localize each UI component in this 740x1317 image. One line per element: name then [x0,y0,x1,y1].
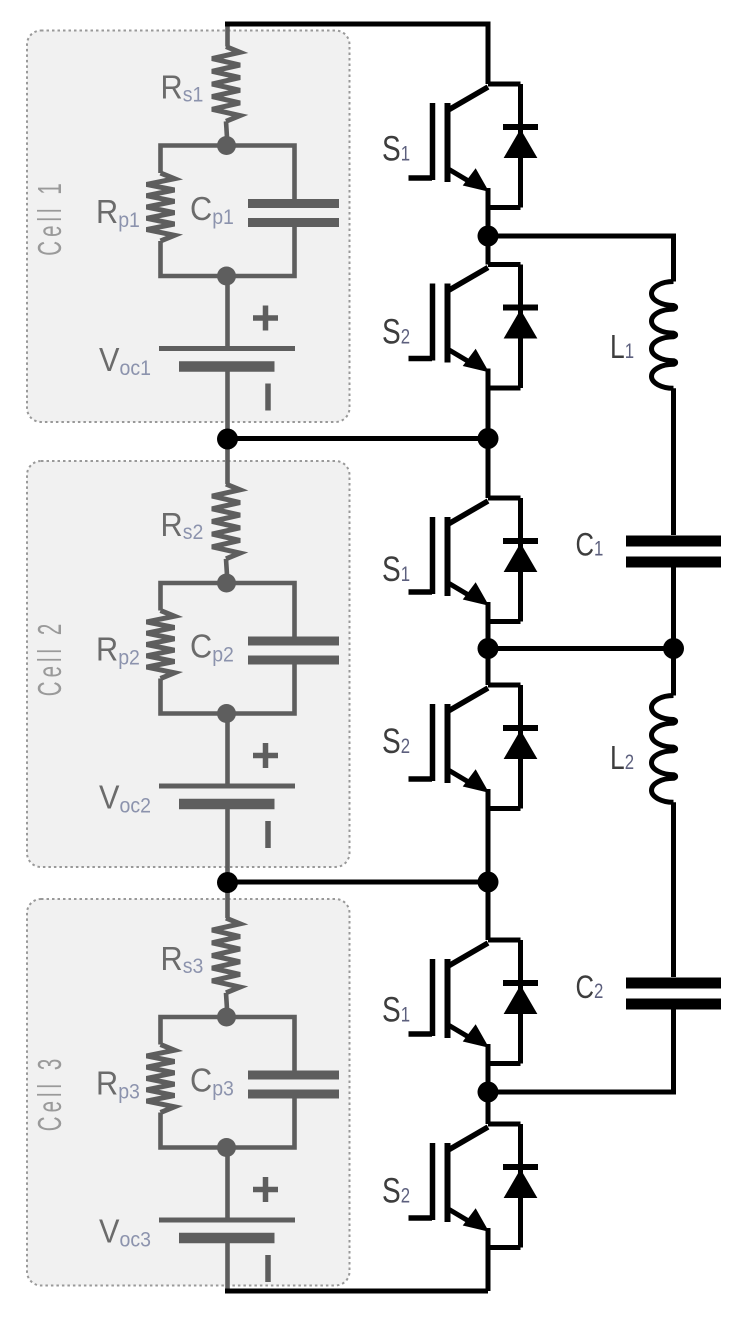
gate bar [430,103,436,180]
node: Rs1/Rp1/Cp1 junction [217,136,236,155]
node C: half-bridge 3 midpoint [478,1082,499,1103]
gate lead [409,1215,433,1221]
node D: C1/L2 junction [663,638,684,659]
svg-text:p1: p1 [212,206,234,229]
body bar [445,103,451,182]
svg-text:2: 2 [401,326,410,349]
emitter diagonal with arrow [448,349,472,363]
collector tee [488,685,521,809]
node: Rs2/Rp2/Cp2 junction [217,574,236,593]
wire: node to battery positive plate [225,714,230,784]
collector tee [488,1124,521,1248]
svg-text:p2: p2 [118,647,140,670]
svg-text:p1: p1 [118,209,140,232]
gate lead [409,356,433,362]
svg-text:R: R [96,630,118,667]
svg-text:1: 1 [625,340,634,363]
svg-text:1: 1 [401,1004,410,1027]
svg-text:Cell 1: Cell 1 [31,179,68,255]
gate bar [430,959,436,1036]
battery Voc3 [159,1218,295,1223]
body bar [445,1143,451,1222]
resistor Rp1 [147,173,175,241]
battery Voc1 [159,346,295,351]
svg-text:C: C [576,528,594,563]
battery cell enclosure box Cell 1 [27,31,350,423]
wire: S1 emitter / S2 collector link (HB1) [486,188,491,439]
diode anode elbow [489,1061,521,1066]
collector tee [488,940,521,1064]
collector tee [488,265,521,389]
svg-text:1: 1 [401,563,410,586]
node: RC loop to battery junction [217,1138,236,1157]
wire: HB2 midpoint to C1/L2 node [488,646,674,651]
transistor S1 (IGBT, half-bridge 1) [409,84,539,208]
wire: mid bus cell2/cell3 junction to half-bridge 2/3 [228,880,489,885]
gate bar [430,284,436,361]
diode cathode bar [503,538,538,544]
collector diagonal [448,268,489,292]
resistor Rs2 [212,484,240,559]
svg-text:S: S [382,1170,401,1210]
diode cathode bar [503,124,538,130]
svg-text:S: S [382,721,401,761]
node: RC loop to battery junction [217,704,236,723]
svg-text:V: V [99,1212,120,1249]
plus terminal marker cell 1 [253,306,278,331]
svg-text:2: 2 [594,980,603,1003]
capacitor C1 [626,541,721,562]
emitter diagonal with arrow [448,770,472,784]
svg-text:S: S [382,128,401,168]
diode anode elbow [489,806,521,811]
capacitor Cp2 [248,641,339,660]
wire: top bus from cell stack to S1 collector [225,24,488,84]
svg-text:L: L [610,740,625,776]
collector diagonal [448,943,489,967]
diode anode elbow [489,1245,521,1250]
plus terminal marker cell 3 [253,1177,278,1202]
node: cell1/cell2 junction [217,429,238,450]
diode anode elbow [489,205,521,210]
diode triangle [505,731,537,759]
collector diagonal [448,1127,489,1151]
svg-text:S: S [382,549,401,589]
wire: series lead into Rs3 [225,883,230,919]
diode triangle [505,1170,537,1198]
svg-text:V: V [99,341,120,378]
svg-text:R: R [161,940,183,977]
svg-text:1: 1 [594,538,603,561]
svg-text:oc3: oc3 [120,1229,151,1252]
wire: C1 to L2 node [671,568,676,696]
wire: C2 return to HB3 midpoint [488,1010,674,1093]
svg-text:R: R [161,69,183,106]
resistor Rp2 [147,611,175,679]
diode triangle [505,544,537,572]
node: S2 emitter / mid bus junction (HB1) [478,428,499,449]
wire: HB3 collector feed and links [486,882,491,1291]
diode triangle [505,130,537,158]
svg-text:R: R [96,193,118,230]
body bar [445,959,451,1038]
capacitor C2 [626,983,721,1004]
gate bar [430,1143,436,1220]
svg-text:2: 2 [401,735,410,758]
collector diagonal [448,501,489,525]
transistor S2 (IGBT, half-bridge 3) [409,1124,539,1248]
resistor Rs1 [212,47,240,122]
wire: Rs2 to RC node [226,559,228,583]
wire: HB2 collector feed and links [486,439,491,883]
inductor L2 [652,696,676,803]
svg-text:V: V [99,778,120,815]
svg-text:oc1: oc1 [120,357,151,380]
emitter diagonal with arrow [448,583,472,597]
body bar [445,284,451,363]
wire: L1 to C1 [671,388,676,535]
resistor Rs3 [212,918,240,993]
wire: node to battery positive plate [225,1148,230,1218]
svg-text:p2: p2 [212,644,234,667]
wire: L2 to C2 [671,802,676,977]
minus terminal marker cell 3 [265,1255,271,1282]
svg-text:s2: s2 [183,521,204,544]
wire: Rs1 to RC node [226,121,228,145]
collector tee [488,498,521,622]
transistor S2 (IGBT, half-bridge 2) [409,685,539,809]
gate bar [430,704,436,781]
wire: series lead into Rs1 [225,26,230,47]
svg-text:Cell 3: Cell 3 [31,1055,68,1131]
gate bar [430,517,436,594]
transistor S1 (IGBT, half-bridge 3) [409,940,539,1064]
wire: node to battery positive plate [225,276,230,346]
resistor Rp3 [147,1045,175,1113]
wire: parallel RC loop cell 3 [161,1017,295,1148]
battery Voc2 [159,784,295,789]
wire: battery negative lead cell 1 [225,372,230,441]
svg-text:s1: s1 [183,84,204,107]
node: Rs3/Rp3/Cp3 junction [217,1008,236,1027]
capacitor Cp3 [248,1075,339,1094]
body bar [445,704,451,783]
svg-text:2: 2 [625,751,634,774]
svg-text:2: 2 [401,1185,410,1208]
svg-text:R: R [161,506,183,543]
wire: parallel RC loop cell 2 [161,583,295,714]
wire: mid bus cell1/cell2 junction to half-bridge 1/2 [228,436,489,441]
battery cell enclosure box Cell 3 [27,899,350,1286]
svg-text:p3: p3 [212,1078,234,1101]
wire: HB1 midpoint to L1 [488,236,674,282]
diode anode elbow [489,386,521,391]
collector diagonal [448,688,489,712]
diode triangle [505,986,537,1014]
svg-text:C: C [190,190,212,227]
svg-text:C: C [190,1061,212,1098]
svg-text:p3: p3 [118,1081,140,1104]
diode anode elbow [489,619,521,624]
svg-text:C: C [576,970,594,1005]
svg-text:C: C [190,627,212,664]
wire: Rs3 to RC node [226,993,228,1017]
node: S2 emitter / mid bus junction (HB2) [478,872,499,893]
emitter diagonal with arrow [448,1209,472,1223]
emitter diagonal with arrow [448,169,472,183]
wire: parallel RC loop cell 1 [161,146,295,277]
minus terminal marker cell 2 [265,821,271,848]
gate lead [409,175,433,181]
transistor S2 (IGBT, half-bridge 1) [409,265,539,389]
wire: battery negative lead cell 2 [225,809,230,882]
svg-text:L: L [610,329,625,365]
collector diagonal [448,87,489,111]
node B: half-bridge 2 midpoint [478,638,499,659]
svg-text:s3: s3 [183,955,204,978]
wire: series lead into Rs2 [225,440,230,484]
transistor S1 (IGBT, half-bridge 2) [409,498,539,622]
diode cathode bar [503,305,538,311]
diode triangle [505,311,537,339]
gate lead [409,776,433,782]
node: RC loop to battery junction [217,267,236,286]
capacitor Cp1 [248,204,339,223]
diode cathode bar [503,980,538,986]
svg-text:S: S [382,311,401,351]
diode cathode bar [503,1164,538,1170]
svg-text:oc2: oc2 [120,795,151,818]
diode cathode bar [503,725,538,731]
node A: half-bridge 1 midpoint [478,226,499,247]
emitter diagonal with arrow [448,1025,472,1039]
svg-text:S: S [382,989,401,1029]
wire: battery negative lead cell 3 [225,1243,230,1291]
svg-text:1: 1 [401,143,410,166]
node: cell2/cell3 junction [217,872,238,893]
inductor L1 [652,282,676,389]
gate lead [409,589,433,595]
battery cell enclosure box Cell 2 [27,461,350,867]
wire: bottom bus from cell stack to S2 emitter [225,1289,488,1294]
plus terminal marker cell 2 [253,743,278,768]
minus terminal marker cell 1 [265,384,271,411]
svg-text:Cell 2: Cell 2 [31,620,68,696]
gate lead [409,1031,433,1037]
svg-text:R: R [96,1064,118,1101]
body bar [445,517,451,596]
collector tee [488,84,521,208]
